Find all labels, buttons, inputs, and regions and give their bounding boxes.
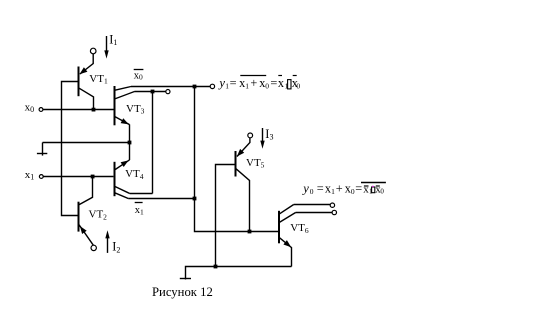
wire: x1 input line (43, 176, 113, 178)
wire: VT1 base to VT2 base vertical bus (62, 82, 79, 216)
svg-text:=: = (230, 76, 237, 90)
wire: cross-coupling vertical to VT4 collector1 (152, 92, 154, 194)
svg-text:x1: x1 (135, 205, 144, 216)
svg-text:Рисунок 12: Рисунок 12 (152, 285, 213, 299)
node y0 terminal 2 (332, 210, 336, 214)
wire: VT3 collector1 to y1 node (131, 86, 210, 88)
svg-text:I2: I2 (112, 240, 120, 255)
junction: VT2 collector to x1 line (91, 175, 95, 179)
transistor VT5 (216, 133, 253, 267)
current source arrow I1 (106, 36, 108, 52)
wire: VT4 collector2 horizontal (128, 198, 194, 200)
wire: VT3 collector2 line (135, 91, 166, 93)
svg-text:+: + (250, 76, 257, 90)
node x0 input terminal (39, 108, 43, 112)
svg-text:=: = (270, 76, 277, 90)
svg-text:=: = (355, 182, 362, 196)
wire: y1 vertical down and VT6 base line (195, 87, 279, 232)
svg-text:VT4: VT4 (125, 168, 144, 181)
node y1 output terminal (210, 84, 214, 88)
svg-text:x1: x1 (25, 169, 35, 182)
svg-text:VT2: VT2 (89, 209, 108, 222)
svg-text:0: 0 (265, 82, 269, 91)
svg-text:y: y (217, 76, 225, 90)
junction: VT3 collector2 to cross-coupling (151, 90, 155, 94)
transistor VT6 (279, 205, 296, 267)
svg-text:y: y (301, 182, 309, 196)
current source arrow I3 (262, 128, 264, 143)
junction: VT5 collector to VT6 base (248, 230, 252, 234)
wire: x0 input line (43, 109, 114, 111)
wire: bottom ground line (186, 267, 292, 280)
svg-text:1: 1 (331, 187, 335, 196)
junction: VT1 collector to x0 line (92, 108, 96, 112)
node x1 input terminal (39, 175, 43, 179)
ground (42, 143, 44, 156)
svg-text:+: + (336, 182, 343, 196)
svg-text:1: 1 (369, 188, 373, 196)
wire: common emitter vertical of VT3/VT4 (129, 124, 131, 160)
svg-text:VT1: VT1 (89, 73, 108, 86)
svg-text:1: 1 (245, 82, 249, 91)
svg-text:x: x (278, 76, 284, 90)
ground (180, 278, 191, 280)
junction: emitters to ground (128, 141, 132, 145)
node y0 terminal 1 (330, 203, 334, 207)
svg-text:0: 0 (380, 188, 384, 196)
junction: VT4 collector2 to y1 vertical (193, 197, 197, 201)
transistor VT1 (79, 48, 96, 109)
svg-text:I3: I3 (265, 127, 273, 142)
wire: VT4 collector1 horizontal (130, 193, 153, 195)
svg-text:I1: I1 (109, 32, 117, 47)
transistor VT3 (115, 86, 135, 125)
svg-text:x0: x0 (134, 70, 143, 81)
label NOT x1 (135, 202, 143, 204)
node: open collector terminal of VT3 (166, 90, 170, 94)
svg-text:x0: x0 (25, 102, 34, 115)
svg-text:0: 0 (296, 82, 300, 91)
svg-text:0: 0 (310, 187, 314, 196)
junction: y1 node (193, 85, 197, 89)
wire: VT6 collector2 to y0 terminal (296, 212, 333, 214)
transistor VT4 (115, 160, 130, 199)
formula y1 = NOT(x1+x0) = NOT x1 AND NOT x0 (217, 76, 300, 91)
wire: VT6 collector1 to y0 terminal (294, 204, 331, 206)
formula y0 = x1+x0 = NOT(NOT x1 AND NOT x0) (301, 182, 386, 197)
transistor VT2 (79, 177, 97, 251)
svg-text:VT3: VT3 (126, 103, 145, 116)
current source arrow I2 (107, 237, 109, 253)
svg-text:VT5: VT5 (246, 157, 265, 170)
label NOT x0 (134, 69, 144, 71)
svg-text:=: = (317, 182, 324, 196)
svg-text:0: 0 (351, 187, 355, 196)
wire: ground line to VT3/VT4 emitters (43, 142, 130, 144)
svg-text:VT6: VT6 (290, 222, 309, 235)
junction: VT5 base to ground line (214, 265, 218, 269)
